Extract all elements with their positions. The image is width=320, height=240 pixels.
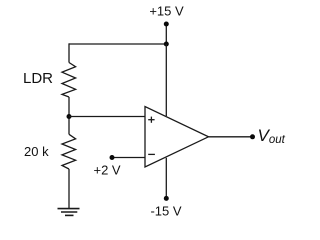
resistor R1 20 k (62, 134, 76, 169)
wire top horizontal (69, 43, 166, 45)
svg-text:20 k: 20 k (24, 144, 49, 159)
wire left vertical upper segment (68, 43, 70, 62)
svg-text:LDR: LDR (23, 70, 53, 87)
svg-text:+2 V: +2 V (94, 163, 121, 178)
wire output (209, 136, 253, 138)
+2 V input terminal dot (110, 155, 115, 160)
svg-text:+15 V: +15 V (149, 4, 184, 19)
wire left vertical middle segment (68, 97, 70, 134)
op-amp U1 triangle (145, 107, 209, 168)
wire left vertical lower segment (68, 169, 70, 208)
resistor LDR (62, 63, 76, 98)
wire V- power line from op-amp bottom (165, 158, 167, 199)
op-amp plus input sign (148, 117, 154, 123)
wire V+ power line to op-amp top (165, 44, 167, 116)
+15 V supply stub wire (165, 24, 167, 44)
-15 V supply terminal dot (164, 196, 169, 201)
svg-text:-15 V: -15 V (150, 204, 181, 219)
wire to non-inverting input (69, 116, 145, 118)
node junction dot between resistors (67, 114, 72, 119)
node output terminal dot (250, 134, 255, 139)
op-amp minus input sign (148, 153, 155, 155)
wire inverting input (112, 157, 145, 159)
ground (58, 209, 80, 216)
+15 V supply terminal dot (164, 22, 169, 27)
node junction dot at top wire (164, 42, 169, 47)
